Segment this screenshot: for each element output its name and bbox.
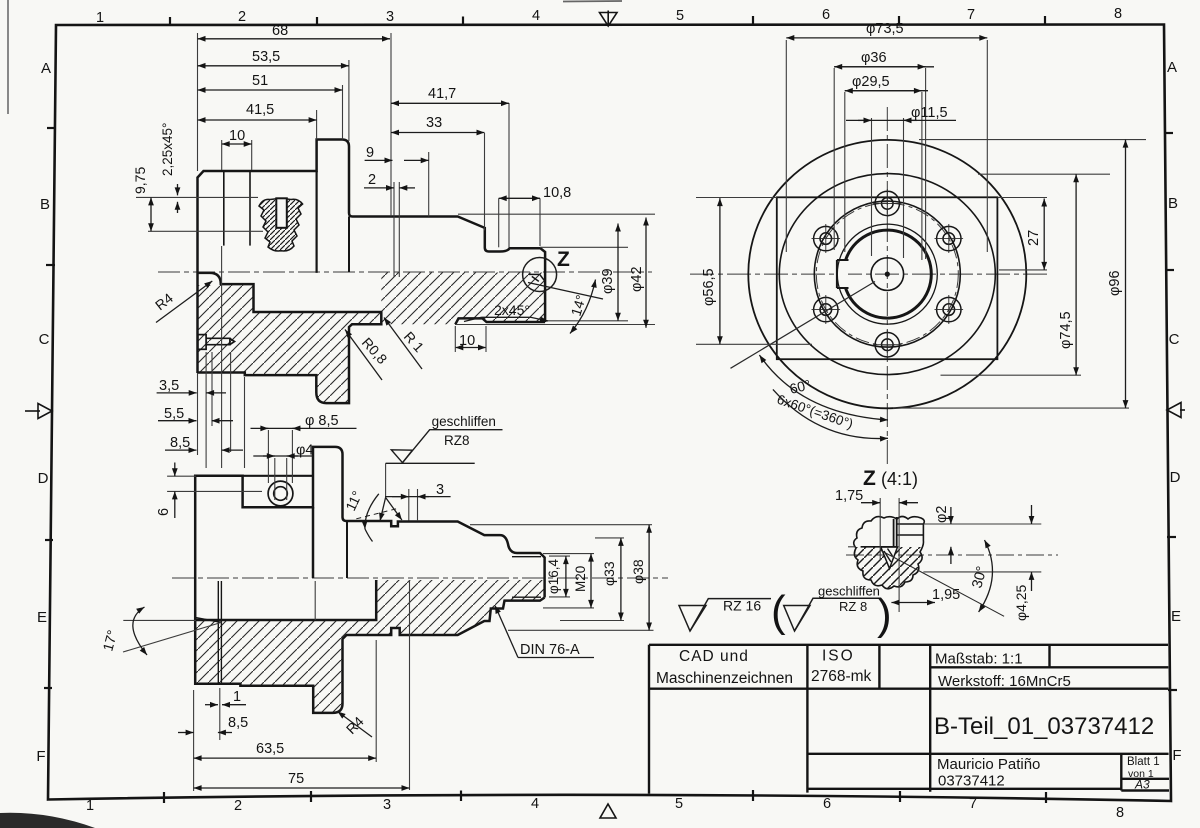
view1 centerline xyxy=(158,271,652,273)
svg-text:geschliffen: geschliffen xyxy=(432,414,496,429)
dimension phi56,5 xyxy=(719,198,721,344)
left edge half-ticks xyxy=(44,128,56,688)
svg-text:φ96: φ96 xyxy=(1107,270,1123,296)
svg-text:1,95: 1,95 xyxy=(932,587,960,603)
svg-text:8: 8 xyxy=(1114,6,1122,22)
dimension 2 xyxy=(364,187,415,189)
svg-text:(: ( xyxy=(771,587,786,636)
svg-text:R4: R4 xyxy=(343,713,367,737)
end undercut notch xyxy=(528,274,545,281)
svg-text:27: 27 xyxy=(1026,230,1042,246)
svg-text:10,8: 10,8 xyxy=(543,185,571,201)
dimension phi73,5 xyxy=(786,37,987,39)
dimension 41,7 xyxy=(391,102,509,104)
svg-text:6x60°(=360°): 6x60°(=360°) xyxy=(775,392,855,432)
svg-text:6: 6 xyxy=(156,508,172,516)
svg-text:60°: 60° xyxy=(788,376,812,397)
top numbers xyxy=(96,6,1122,26)
view1 hatch shaft region xyxy=(381,273,545,325)
svg-text:Blatt 1: Blatt 1 xyxy=(1127,756,1160,768)
dimension 27 xyxy=(1043,199,1045,270)
svg-text:R0,8: R0,8 xyxy=(359,334,391,367)
label 14deg xyxy=(528,280,603,334)
svg-text:R 1: R 1 xyxy=(401,328,428,355)
svg-text:2: 2 xyxy=(234,798,242,814)
surface symbol geschliffen RZ8 detail xyxy=(784,598,880,631)
view2 outline lower xyxy=(195,578,544,713)
svg-text:3,5: 3,5 xyxy=(159,378,179,394)
60 deg arc xyxy=(759,355,888,420)
dimension phi16,4 xyxy=(565,556,567,597)
svg-text:4: 4 xyxy=(531,796,539,812)
svg-text:3: 3 xyxy=(386,9,394,25)
svg-text:M20: M20 xyxy=(573,566,588,592)
svg-text:53,5: 53,5 xyxy=(252,49,280,65)
svg-text:8,5: 8,5 xyxy=(170,435,190,451)
svg-text:RZ 8: RZ 8 xyxy=(839,599,867,614)
svg-text:Werkstoff: 16MnCr5: Werkstoff: 16MnCr5 xyxy=(938,673,1071,690)
svg-text:φ 8,5: φ 8,5 xyxy=(305,413,339,429)
svg-text:Maschinenzeichnen: Maschinenzeichnen xyxy=(656,670,793,687)
svg-text:7: 7 xyxy=(967,7,975,23)
svg-text:14°: 14° xyxy=(568,293,589,318)
dimension 51 xyxy=(198,89,343,91)
dimension 10 groove xyxy=(455,347,486,349)
view3 top ext verticals xyxy=(786,40,987,260)
svg-text:φ39: φ39 xyxy=(600,268,616,294)
svg-text:1,75: 1,75 xyxy=(835,488,863,504)
scanner left edge streak xyxy=(7,0,9,114)
dimension phi4,25 xyxy=(1031,505,1033,591)
dimension 9,75 xyxy=(150,197,152,231)
svg-text:11°: 11° xyxy=(342,488,365,513)
view2 outline upper xyxy=(195,447,544,598)
dimension 10 top xyxy=(222,143,252,145)
view2 flange hole circles xyxy=(268,481,293,506)
bottom edge half-ticks xyxy=(164,790,1046,803)
svg-text:2x45°: 2x45° xyxy=(494,302,530,318)
svg-text:φ38: φ38 xyxy=(630,559,646,584)
detail ext lines xyxy=(848,498,1041,612)
dimension phi36 xyxy=(834,66,934,68)
svg-text:5: 5 xyxy=(676,8,684,24)
view3 centerline vertical xyxy=(886,107,888,468)
svg-text:A: A xyxy=(41,60,51,77)
6x60 arc xyxy=(773,389,888,438)
svg-text:φ29,5: φ29,5 xyxy=(852,74,890,90)
svg-text:1: 1 xyxy=(96,10,104,26)
svg-text:φ16,4: φ16,4 xyxy=(546,558,561,594)
dimension 6 xyxy=(174,463,176,519)
svg-text:6: 6 xyxy=(822,7,830,23)
svg-text:D: D xyxy=(1170,469,1181,486)
svg-text:B: B xyxy=(40,196,50,213)
dimension phi11,5 xyxy=(846,119,956,121)
svg-text:Z: Z xyxy=(557,248,570,271)
dimension 10,8 xyxy=(499,197,540,199)
detail centerline xyxy=(846,554,1058,556)
dimension phi29,5 xyxy=(845,90,928,92)
label R4 view2 xyxy=(338,712,373,738)
dimension phi96 xyxy=(1125,140,1127,409)
detail circle Z xyxy=(523,258,557,292)
svg-text:3: 3 xyxy=(383,797,391,813)
left letters xyxy=(36,60,51,765)
boss circle phi56.5 xyxy=(814,201,960,347)
svg-text:φ73,5: φ73,5 xyxy=(866,21,904,37)
svg-text:68: 68 xyxy=(272,23,288,39)
right letters xyxy=(1167,59,1182,764)
center dot xyxy=(885,272,890,277)
dimension phi4 xyxy=(253,455,313,457)
dimension phi33 xyxy=(620,538,622,621)
svg-text:9: 9 xyxy=(366,145,374,161)
detail end face double line xyxy=(894,517,897,547)
view2 thread minor line top xyxy=(512,556,541,558)
svg-text:41,7: 41,7 xyxy=(428,86,456,102)
svg-text:6: 6 xyxy=(823,796,831,812)
svg-text:Mauricio Patiño: Mauricio Patiño xyxy=(937,756,1040,773)
view3 right ext horizontals xyxy=(696,140,1146,409)
title block grid xyxy=(649,645,1169,794)
right edge half-ticks xyxy=(1164,133,1177,690)
bolt hole cross ticks xyxy=(812,189,964,359)
keyway slot xyxy=(834,259,848,289)
view2 counterbore lines xyxy=(195,581,221,684)
dimension phi42 xyxy=(645,218,647,328)
dimension 41,5 xyxy=(198,119,317,121)
svg-text:DIN 76-A: DIN 76-A xyxy=(520,642,580,658)
svg-text:ISO: ISO xyxy=(822,648,855,665)
bore circle phi29.5 thick xyxy=(843,230,931,318)
svg-text:2768-mk: 2768-mk xyxy=(811,668,872,685)
bolt holes xyxy=(814,191,961,357)
view2 hatch solid section xyxy=(195,580,544,713)
dimension 75 xyxy=(194,787,410,789)
right centering arrow xyxy=(1167,403,1185,418)
svg-text:63,5: 63,5 xyxy=(256,741,284,757)
view2 thread minor line bottom xyxy=(512,596,541,598)
detail pin lines xyxy=(861,524,924,547)
label 11deg xyxy=(356,494,402,542)
svg-text:3: 3 xyxy=(436,482,444,498)
svg-text:CAD und: CAD und xyxy=(679,648,749,665)
svg-text:C: C xyxy=(1169,331,1180,348)
view1 hatch flange region xyxy=(198,285,382,403)
svg-text:8,5: 8,5 xyxy=(228,715,248,731)
dimension phi2 xyxy=(950,507,952,564)
dimension 1,95 xyxy=(891,602,935,604)
detail undercut notch xyxy=(881,547,898,569)
svg-text:5: 5 xyxy=(675,796,683,812)
dimension 9 xyxy=(365,159,429,161)
svg-text:φ42: φ42 xyxy=(629,266,645,292)
left centering arrow xyxy=(25,404,52,419)
svg-text:RZ 16: RZ 16 xyxy=(723,598,761,614)
dimension phi38 xyxy=(648,525,650,631)
svg-text:RZ8: RZ8 xyxy=(444,433,470,448)
bottom numbers xyxy=(86,796,1124,821)
svg-text:φ11,5: φ11,5 xyxy=(911,105,948,121)
svg-text:φ4: φ4 xyxy=(296,443,313,459)
surface symbol RZ16 xyxy=(679,599,771,631)
dimension phi8,5 xyxy=(251,427,357,429)
svg-text:2: 2 xyxy=(368,172,376,188)
label R1 xyxy=(384,318,422,370)
svg-text:2,25x45°: 2,25x45° xyxy=(160,123,175,176)
chamfer circle phi36 xyxy=(837,224,937,324)
svg-text:D: D xyxy=(38,470,49,487)
top centering mark xyxy=(600,11,618,27)
dimension 2,25x45 xyxy=(177,184,179,213)
dimension phi39 xyxy=(617,224,619,321)
scanner corner blob bottom-left xyxy=(0,813,95,828)
svg-text:1: 1 xyxy=(233,689,241,705)
svg-text:7: 7 xyxy=(969,796,977,812)
dimension 3,5 xyxy=(157,392,226,394)
view2 ext lines xyxy=(123,430,654,791)
surface symbol geschliffen RZ8 top xyxy=(386,430,503,464)
view1 outline upper xyxy=(198,140,546,374)
svg-text:): ) xyxy=(877,590,892,639)
svg-text:51: 51 xyxy=(252,73,268,89)
detail blob outline xyxy=(854,517,925,589)
svg-text:Maßstab: 1:1: Maßstab: 1:1 xyxy=(935,651,1023,668)
svg-text:5,5: 5,5 xyxy=(164,406,184,422)
dimension 3 xyxy=(385,496,451,498)
dimension 68 xyxy=(198,38,391,40)
view1 pin in flange xyxy=(198,335,235,350)
view1 outline lower xyxy=(198,273,546,403)
outer circle phi96 xyxy=(748,140,1026,408)
svg-text:(4:1): (4:1) xyxy=(881,469,918,489)
title block texts xyxy=(656,648,1160,792)
dimension phi74,5 xyxy=(1075,174,1077,375)
dimension 5,5 xyxy=(158,420,233,422)
svg-text:φ33: φ33 xyxy=(601,561,617,586)
svg-text:33: 33 xyxy=(426,115,442,131)
center hole phi11.5 xyxy=(871,258,904,291)
svg-text:17°: 17° xyxy=(99,628,120,653)
dimension 63,5 xyxy=(194,757,377,759)
label R0,8 xyxy=(345,330,382,381)
svg-text:E: E xyxy=(1171,608,1181,625)
view1 disc edge inner line xyxy=(316,171,318,273)
svg-text:41,5: 41,5 xyxy=(246,102,274,118)
top edge half-ticks xyxy=(170,16,1045,25)
svg-text:B: B xyxy=(1168,195,1178,212)
svg-text:10: 10 xyxy=(229,128,245,144)
bolt circle dashed xyxy=(816,203,958,345)
view1 threaded hole blob xyxy=(259,198,303,251)
svg-text:φ36: φ36 xyxy=(861,50,887,66)
svg-text:75: 75 xyxy=(288,771,304,787)
svg-text:A3: A3 xyxy=(1134,778,1150,792)
view2 centerline xyxy=(172,577,668,579)
svg-text:E: E xyxy=(37,609,47,626)
dimension 1,75 xyxy=(861,502,918,504)
svg-text:F: F xyxy=(36,748,45,765)
svg-text:C: C xyxy=(39,331,50,348)
flange plate rectangle xyxy=(777,197,998,359)
radial line 60deg xyxy=(731,282,876,369)
svg-text:A: A xyxy=(1167,59,1177,76)
svg-text:8: 8 xyxy=(1116,805,1124,821)
30deg arc xyxy=(979,540,993,612)
dimension 33 xyxy=(391,132,485,134)
svg-text:Z: Z xyxy=(863,467,876,490)
top scratch artifact xyxy=(563,0,622,3)
label R4 view1 xyxy=(156,281,212,323)
svg-text:2: 2 xyxy=(238,9,246,25)
view1 keyway slot lines xyxy=(224,171,250,246)
svg-text:φ2: φ2 xyxy=(934,506,950,523)
svg-text:4: 4 xyxy=(532,8,540,24)
label DIN 76-A xyxy=(495,606,594,658)
dimension 53,5 xyxy=(198,65,349,67)
circle phi74.5 xyxy=(779,174,995,375)
view1 ext lines xyxy=(136,33,655,468)
svg-text:φ74,5: φ74,5 xyxy=(1058,311,1074,349)
svg-text:03737412: 03737412 xyxy=(938,773,1005,790)
label 17deg xyxy=(133,607,147,655)
dimension 1 xyxy=(205,704,246,706)
dimension 8,5 lower xyxy=(178,732,232,734)
svg-text:B-Teil_01_03737412: B-Teil_01_03737412 xyxy=(934,713,1154,740)
30deg angle line xyxy=(880,550,1004,616)
dimension M20 xyxy=(590,554,592,608)
svg-text:10: 10 xyxy=(459,333,475,349)
svg-text:30°: 30° xyxy=(969,565,990,590)
view3 centerline horizontal xyxy=(690,273,1050,275)
svg-text:geschliffen: geschliffen xyxy=(818,584,880,599)
svg-text:9,75: 9,75 xyxy=(132,167,148,194)
svg-text:φ56,5: φ56,5 xyxy=(701,268,717,306)
label 2x45 xyxy=(464,317,548,321)
dimension 8,5 view1 xyxy=(165,449,243,451)
svg-text:F: F xyxy=(1172,747,1181,764)
bottom centering mark xyxy=(600,804,616,818)
svg-text:1: 1 xyxy=(86,798,94,814)
svg-text:φ4,25: φ4,25 xyxy=(1013,584,1029,621)
